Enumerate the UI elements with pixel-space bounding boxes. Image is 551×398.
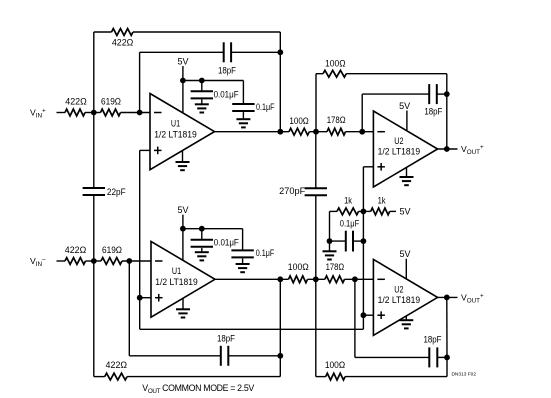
node 5V pin U1b: [180, 226, 186, 232]
ground 0.01uF bottom: [195, 248, 209, 261]
node 18pF/100ohm feedback join: [444, 91, 450, 97]
op-amp U2b 1/2 LT1819 (bottom right): [373, 259, 437, 335]
node 18pF tap bottom right: [352, 276, 358, 282]
wire to capacitor 0.01uF top: [201, 81, 203, 92]
wire 5V bypass rail top: [183, 80, 244, 82]
wire node B2 down to 18pF rail: [128, 261, 130, 356]
wire 18pF bottom-left rail left seg: [129, 355, 221, 357]
capacitor 18pF U1b feedback: [217, 334, 236, 366]
ground reference 0.1uF: [323, 241, 337, 259]
node A junction (VIN+ divider tap): [91, 110, 97, 116]
svg-text:270pF: 270pF: [279, 186, 306, 196]
svg-text:178Ω: 178Ω: [327, 115, 346, 125]
op-amp U2a 1/2 LT1819 (top right): [373, 111, 437, 187]
wire U1a output: [215, 131, 290, 133]
wire right feedback drop to 18pF rail: [279, 32, 281, 132]
op-amp U1b 1/2 LT1819 (bottom): [151, 241, 215, 317]
wire 270pF bottom segment: [315, 195, 317, 279]
wire 422 rail up to 18pF rail: [279, 279, 281, 376]
wire 18pF rail top right right seg: [437, 93, 447, 95]
svg-text:0.01μF: 0.01μF: [214, 238, 240, 248]
wire VIN- to R 422: [57, 260, 66, 262]
svg-text:5V: 5V: [399, 101, 410, 111]
resistor 178ohm series bottom: [325, 262, 345, 283]
supply 5V label U1a: [178, 56, 189, 66]
supply 5V label U2b: [400, 249, 411, 259]
svg-text:1/2 LT1819: 1/2 LT1819: [155, 277, 198, 287]
svg-text:VIN–: VIN–: [30, 256, 46, 268]
node A2 junction (VIN- divider tap): [91, 258, 97, 264]
svg-text:U2: U2: [394, 284, 403, 294]
svg-text:U2: U2: [394, 136, 403, 146]
wire 18pF bottom right rail right seg: [437, 356, 447, 358]
wire U1b + input stub: [140, 297, 151, 299]
wire R619 to U1b inverting input: [122, 260, 151, 262]
wire node A2 down to 422ohm bottom rail: [93, 261, 95, 377]
wire 5V pin U2b: [405, 259, 407, 279]
wire 422ohm bottom rail left: [94, 376, 105, 378]
wire node A up to top feedback rail: [93, 32, 95, 113]
node bypass 0.01uF tap top: [199, 78, 205, 84]
wire U2a output to VOUT+: [438, 148, 458, 150]
node U1b output / feedback tie: [277, 276, 283, 282]
wire 18pF node down bottom: [354, 279, 356, 357]
resistor 100ohm U2b feedback: [325, 360, 346, 380]
wire 100 to 178 bottom: [308, 278, 325, 280]
wire U1b output: [215, 278, 289, 280]
svg-text:100Ω: 100Ω: [325, 360, 346, 370]
capacitor 270pF common-mode: [279, 186, 327, 196]
svg-text:422Ω: 422Ω: [112, 37, 134, 47]
wire 18pF bottom-left rail right seg: [228, 355, 280, 357]
resistor 422ohm VIN+ input: [65, 96, 87, 116]
resistor 178ohm series top: [327, 115, 346, 135]
wire top feedback rail left segment: [94, 31, 112, 33]
wire 1k divider left drop: [329, 211, 331, 241]
wire node A down to 22pF: [93, 113, 95, 189]
ground U2a V- pin: [400, 168, 414, 186]
node 270pF tap top: [313, 129, 319, 135]
wire + reference vertical: [362, 167, 364, 329]
caption VOUT COMMON MODE = 2.5V: [142, 383, 254, 395]
resistor 1k to 5V: [371, 195, 390, 214]
node 0.1uF right on reference vertical: [361, 238, 367, 244]
wire 178 to U2a inverting input: [346, 131, 374, 133]
resistor 619ohm VIN-: [101, 245, 122, 265]
ground U1a V- pin: [176, 151, 190, 171]
node U2b output: [444, 295, 450, 301]
wire U2b output to VOUT+: [438, 296, 458, 298]
op-amp U1a 1/2 LT1819 (top): [150, 94, 215, 170]
capacitor 0.01uF U1a bypass: [191, 89, 240, 99]
wire 100ohm bottom feedback rail left: [316, 376, 326, 378]
resistor 1k upper divider: [337, 195, 359, 214]
svg-text:5V: 5V: [400, 249, 411, 259]
ground 0.1uF bottom: [236, 259, 250, 273]
svg-text:422Ω: 422Ω: [106, 360, 128, 370]
wire 18pF rail left segment: [140, 51, 224, 53]
resistor 619ohm VIN+: [101, 96, 122, 116]
wire + chain bottom rail: [140, 328, 364, 330]
node U1b + input tap: [137, 295, 143, 301]
wire 5V pin U1b: [182, 215, 184, 261]
svg-text:1k: 1k: [344, 195, 353, 205]
capacitor 0.1uF U1b bypass: [231, 248, 274, 258]
wire to capacitor 0.1uF top: [242, 81, 244, 105]
svg-text:VIN+: VIN+: [30, 108, 46, 120]
wire to capacitor 0.1uF bottom: [242, 229, 244, 251]
resistor 422ohm bottom feedback: [105, 360, 128, 380]
wire VIN+ to R 422: [57, 112, 66, 114]
wire R619 to node B and U1a inverting input: [121, 112, 151, 114]
capacitor 18pF U2b feedback: [424, 334, 443, 367]
supply 5V label divider: [400, 206, 411, 216]
node U2b + input tap: [361, 312, 367, 318]
wire feedback drop to 18pF rail right: [446, 74, 448, 149]
ground U1b V- pin: [176, 298, 190, 317]
wire 18pF node up: [361, 94, 363, 132]
wire 5V pin U1a: [182, 66, 184, 113]
wire U1a + input stub: [140, 149, 150, 151]
resistor 100ohm series bottom: [288, 262, 309, 283]
svg-text:100Ω: 100Ω: [288, 262, 309, 272]
svg-text:VOUT COMMON MODE = 2.5V: VOUT COMMON MODE = 2.5V: [142, 383, 254, 395]
svg-text:5V: 5V: [178, 56, 189, 66]
svg-text:178Ω: 178Ω: [326, 262, 345, 272]
wire U2a + input stub: [363, 166, 373, 168]
wire to capacitor 0.01uF bottom: [201, 229, 203, 240]
output VOUT+ terminal label top: [461, 144, 484, 156]
svg-text:U1: U1: [172, 266, 181, 276]
node 1k-1k midpoint: [361, 209, 367, 215]
supply 5V label U2a: [399, 101, 410, 111]
svg-text:18pF: 18pF: [218, 66, 237, 76]
resistor 422ohm top feedback: [112, 29, 134, 48]
svg-text:100Ω: 100Ω: [325, 58, 346, 68]
wire 100ohm feedback rail right: [346, 73, 447, 75]
wire + chain vertical left: [139, 150, 141, 329]
svg-text:619Ω: 619Ω: [101, 96, 121, 106]
ground U2b V- pin: [399, 316, 413, 329]
svg-text:422Ω: 422Ω: [65, 96, 87, 106]
resistor 100ohm U2a feedback: [323, 58, 346, 77]
wire U2b + input stub: [363, 314, 373, 316]
node top-right of 18pF rail: [277, 49, 283, 55]
wire 100ohm feedback rail left: [316, 73, 323, 75]
resistor 422ohm VIN- input: [65, 245, 87, 265]
svg-text:18pF: 18pF: [424, 107, 443, 117]
node U1a output / feedback tie: [277, 129, 283, 135]
wire U2b output down to 18pF rail: [446, 297, 448, 357]
supply 5V label U1b: [178, 205, 189, 215]
node 18pF/100ohm bottom feedback join: [444, 355, 450, 361]
ground 0.01uF top: [195, 100, 209, 113]
svg-text:0.01μF: 0.01μF: [214, 89, 240, 99]
svg-text:22pF: 22pF: [107, 187, 126, 197]
svg-text:1/2 LT1819: 1/2 LT1819: [154, 129, 197, 139]
svg-text:1/2 LT1819: 1/2 LT1819: [378, 147, 421, 157]
wire 422ohm bottom rail right: [127, 376, 280, 378]
wire 5V bypass rail bottom: [183, 228, 243, 230]
svg-text:18pF: 18pF: [217, 334, 236, 344]
wire R422 to node A2: [86, 260, 102, 262]
wire 0.1uF mid left seg: [330, 240, 346, 242]
wire node B up to 18pF rail: [139, 52, 141, 112]
node 18pF tap top right: [359, 129, 365, 135]
input VIN+ terminal label: [30, 108, 46, 120]
wire 270pF node down to 100ohm bottom feedback: [315, 279, 317, 376]
node 18pF bottom-left join: [277, 353, 283, 359]
wire 18pF bottom right rail left seg: [355, 356, 429, 358]
svg-text:1k: 1k: [378, 195, 387, 205]
svg-text:100Ω: 100Ω: [289, 116, 309, 126]
wire R422 to node A: [85, 112, 101, 114]
wire 270pF top segment: [315, 132, 317, 189]
wire between 1k resistors: [359, 210, 371, 212]
capacitor 18pF U1a feedback: [218, 42, 237, 75]
svg-text:5V: 5V: [178, 205, 189, 215]
output VOUT+ terminal label bottom: [461, 292, 484, 304]
wire 5V pin U2a: [406, 111, 408, 131]
figure tag DN313 F02: [451, 372, 476, 378]
svg-text:1/2 LT1819: 1/2 LT1819: [378, 295, 421, 305]
resistor 100ohm series top: [289, 116, 309, 135]
capacitor 0.01uF U1b bypass: [191, 238, 240, 248]
wire 1k left lead: [330, 210, 338, 212]
svg-text:0.1μF: 0.1μF: [256, 102, 275, 112]
svg-text:VOUT+: VOUT+: [461, 292, 484, 304]
svg-text:619Ω: 619Ω: [102, 245, 122, 255]
capacitor 0.1uF reference: [340, 219, 360, 252]
wire 18pF rail right segment: [231, 51, 280, 53]
node bypass 0.01uF tap bottom: [199, 226, 205, 232]
node U2a output: [444, 146, 450, 152]
capacitor 22pF between input nodes: [83, 187, 127, 197]
wire 18pF rail top right left seg: [362, 93, 429, 95]
svg-text:VOUT+: VOUT+: [461, 144, 484, 156]
svg-text:422Ω: 422Ω: [65, 245, 87, 255]
node 5V pin U1a: [180, 78, 186, 84]
ground 0.1uF top: [236, 112, 250, 127]
node 0.1uF left / ground: [327, 238, 333, 244]
wire top feedback rail right segment: [133, 31, 280, 33]
svg-text:0.1μF: 0.1μF: [340, 219, 360, 229]
wire 270pF node up to 100ohm feedback rail: [315, 74, 317, 132]
node B2 junction (U1b - input): [126, 258, 132, 264]
node B junction (U1a - input): [137, 110, 143, 116]
node 270pF tap bottom: [313, 276, 319, 282]
wire feedback rise to 18pF rail bottom: [446, 357, 448, 376]
wire 0.1uF mid right seg: [353, 240, 363, 242]
wire 178 to U2b inverting input: [345, 278, 374, 280]
svg-text:DN313 F02: DN313 F02: [451, 372, 476, 378]
wire 1k to 5V label: [390, 210, 396, 212]
wire 100 to 178 top: [309, 131, 327, 133]
wire 100ohm bottom feedback rail right: [345, 376, 447, 378]
svg-text:18pF: 18pF: [424, 334, 443, 344]
wire 22pF down to node A2: [93, 195, 95, 261]
capacitor 0.1uF U1a bypass: [232, 102, 275, 112]
svg-text:U1: U1: [171, 119, 180, 129]
svg-text:5V: 5V: [400, 206, 411, 216]
input VIN- terminal label: [30, 256, 46, 268]
capacitor 18pF U2a feedback: [424, 84, 443, 117]
svg-text:0.1μF: 0.1μF: [256, 248, 275, 258]
